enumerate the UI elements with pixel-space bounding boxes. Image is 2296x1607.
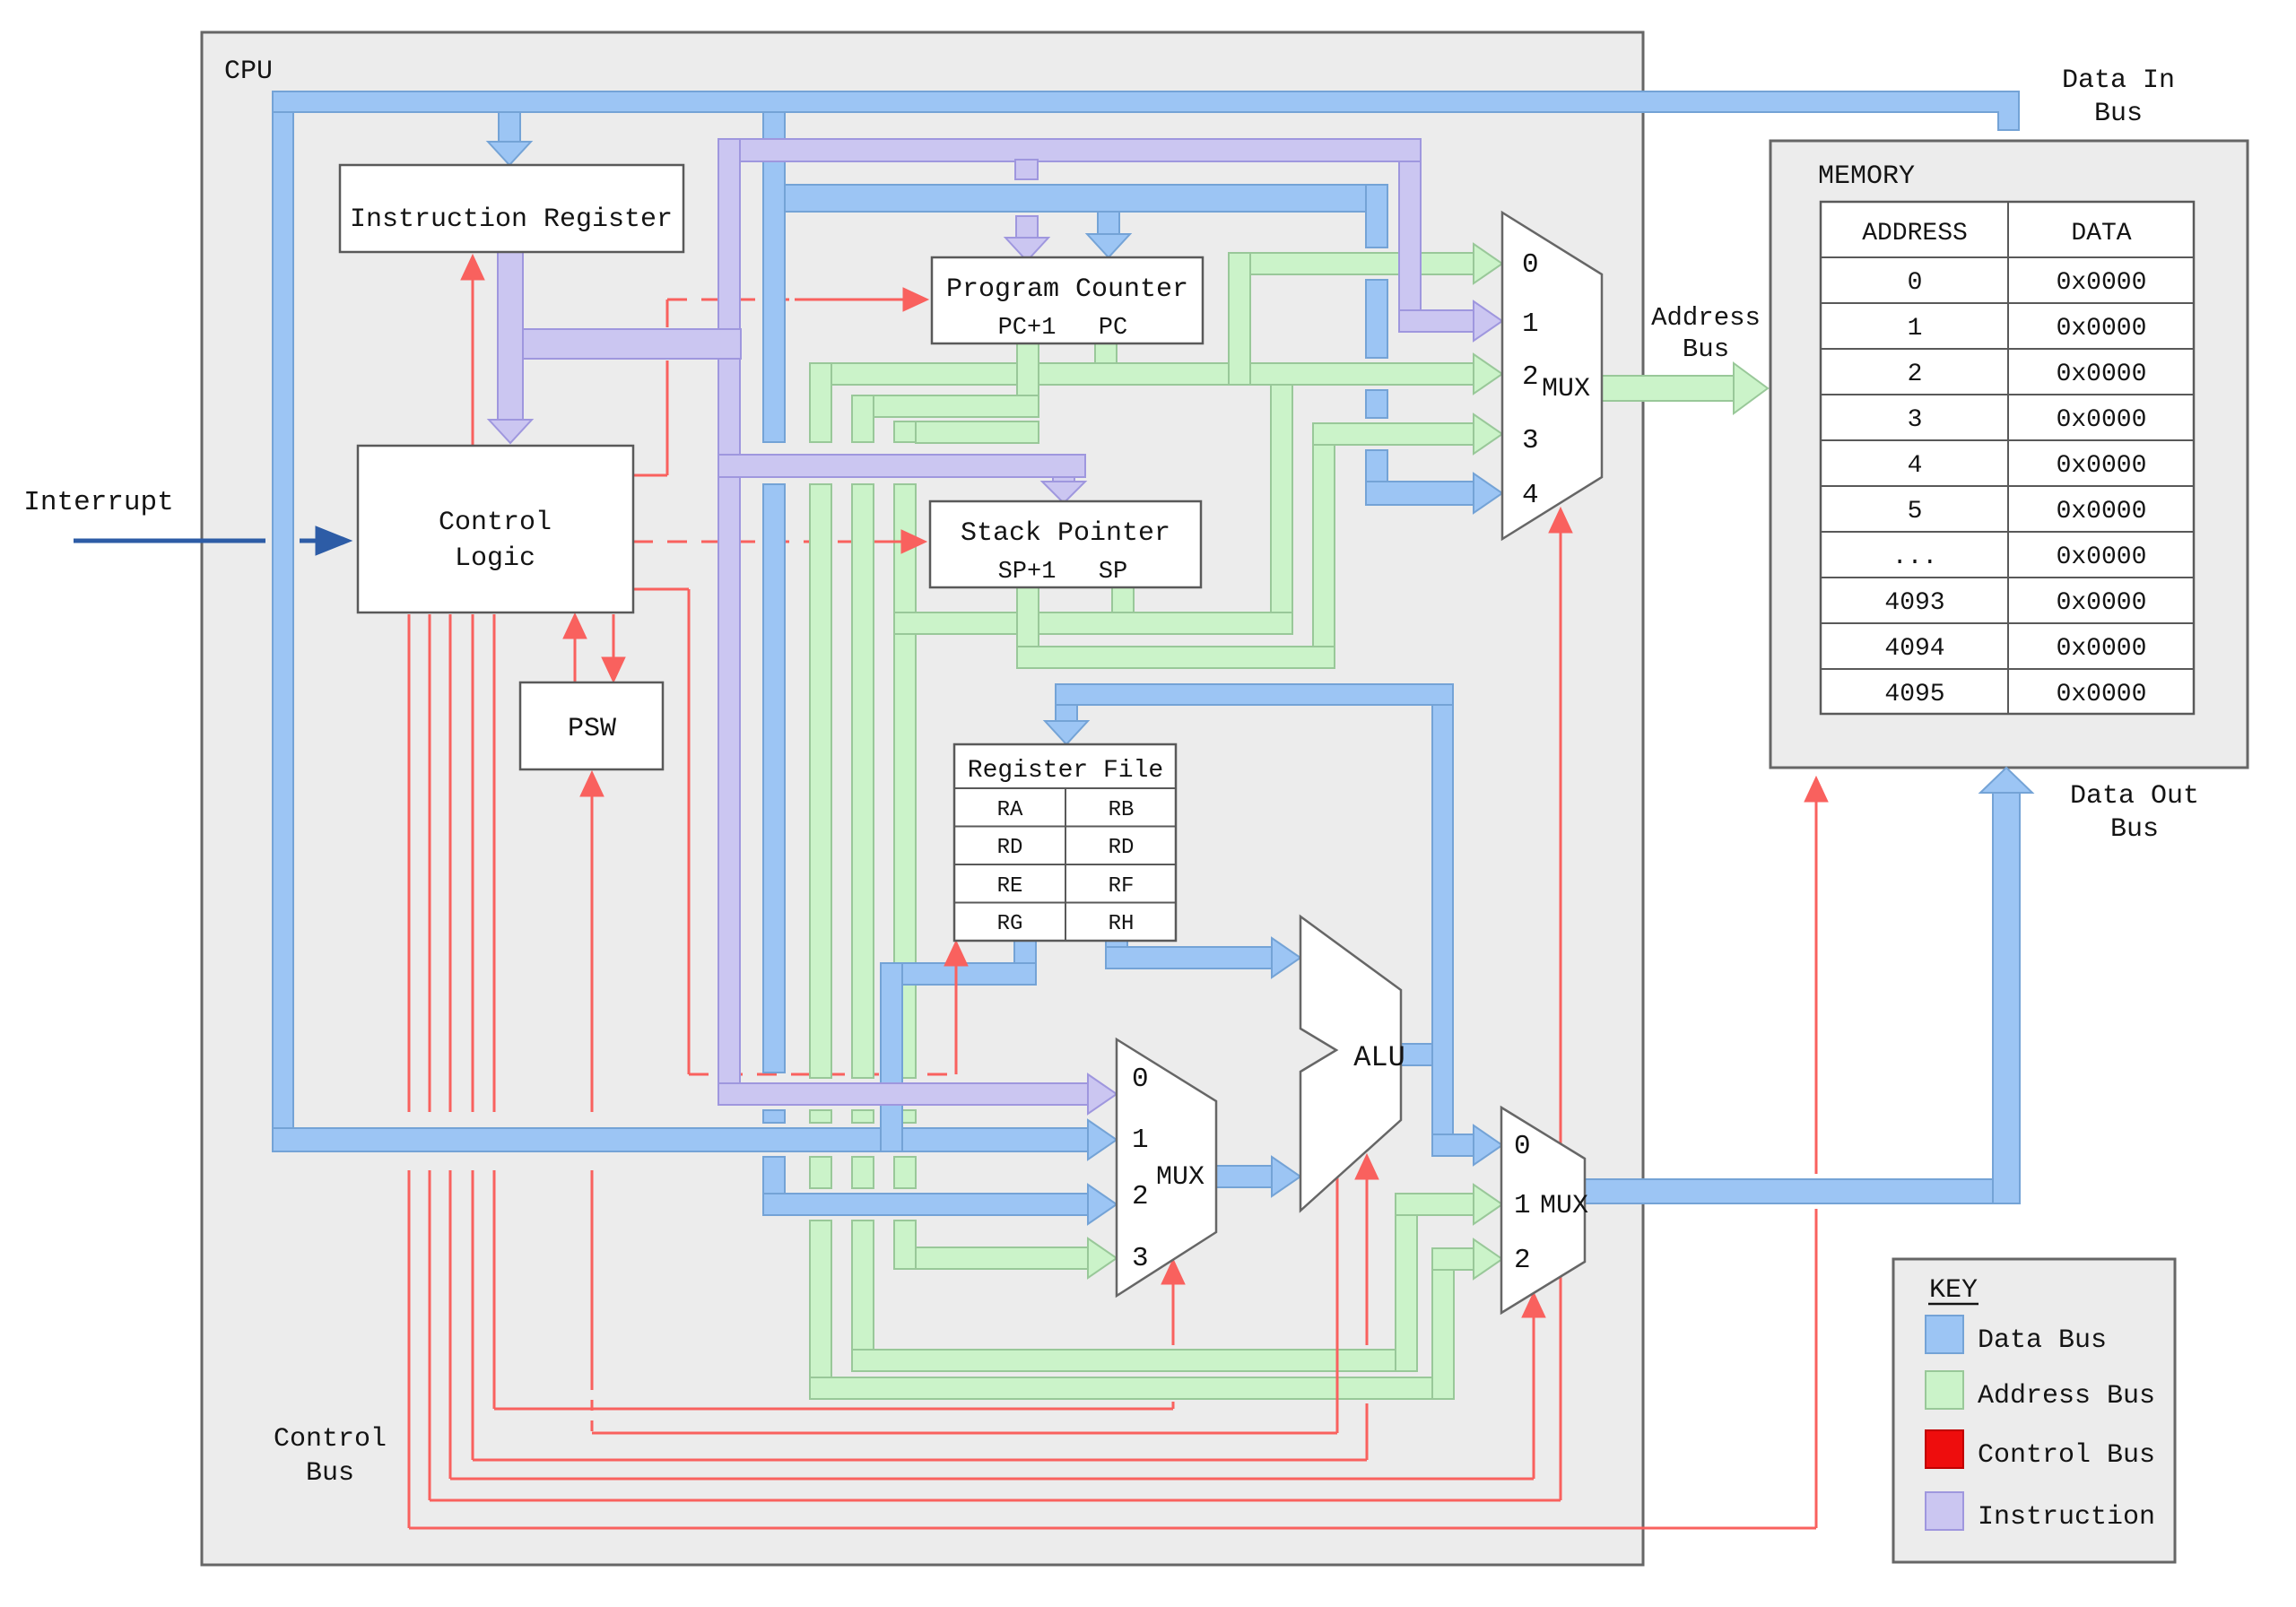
wire red memory control riser upper bbox=[1815, 800, 1818, 1174]
svg-text:RG: RG bbox=[997, 912, 1023, 936]
arrowhead red into MUX1 select bbox=[1549, 508, 1572, 533]
key underline bbox=[1928, 1303, 1979, 1306]
arrowhead blue into MUX2 input 2 bbox=[1088, 1185, 1117, 1224]
wire blue vertical V2blue lower a bbox=[763, 484, 785, 1073]
wire red dashed to Register File bbox=[689, 1073, 956, 1076]
arrowhead purple into MUX2 input 0 bbox=[1088, 1074, 1117, 1114]
wire green riser to MUX3 input 2 bbox=[1432, 1248, 1454, 1399]
wire green stem MUX3 input 1 bbox=[1396, 1194, 1474, 1215]
wire red Register File control drop bbox=[688, 589, 691, 1074]
svg-text:ALU: ALU bbox=[1353, 1041, 1405, 1074]
svg-text:MUX: MUX bbox=[1542, 374, 1590, 404]
svg-text:3: 3 bbox=[1522, 425, 1539, 456]
arrowhead red into Stack Pointer bbox=[901, 530, 926, 553]
arrowhead purple into Control Logic bbox=[489, 420, 532, 443]
wire green column V2 lower c bbox=[852, 1157, 874, 1188]
wire red MUX3 select riser bbox=[1533, 1316, 1535, 1479]
key swatch Control Bus bbox=[1926, 1430, 1963, 1468]
wire red fan line 2 vertical upper bbox=[472, 614, 474, 1112]
wire red Control Logic to Instruction Register bbox=[472, 278, 474, 446]
wire red fan line 2 vertical lower bbox=[472, 1170, 474, 1460]
svg-text:PC: PC bbox=[1099, 315, 1127, 342]
wire purple band B bbox=[718, 455, 1085, 477]
arrowhead green into MUX1 input 0 bbox=[1474, 244, 1502, 283]
box Instruction Register bbox=[340, 165, 683, 252]
svg-text:4095: 4095 bbox=[1884, 681, 1944, 708]
key swatch Address Bus bbox=[1926, 1371, 1963, 1409]
svg-text:Data Bus: Data Bus bbox=[1978, 1325, 2107, 1356]
svg-text:Control: Control bbox=[274, 1424, 387, 1455]
wire blue right vertical segment a bbox=[1366, 185, 1387, 248]
wire red dashed to Program Counter bbox=[667, 299, 795, 301]
wire red flags riser to PSW dashed bbox=[591, 1388, 594, 1431]
arrowhead blue into MUX3 input 0 bbox=[1474, 1125, 1502, 1165]
wire red fan line 5 horizontal bbox=[409, 1527, 1816, 1530]
wire red fan line 4 horizontal bbox=[430, 1499, 1561, 1502]
svg-text:1: 1 bbox=[1514, 1190, 1531, 1221]
wire green riser SP band to MUX1 input 2 bbox=[1271, 385, 1292, 612]
svg-text:0: 0 bbox=[1522, 249, 1539, 281]
wire blue port A elbow horizontal bbox=[881, 963, 1036, 985]
wire green SP output stub bbox=[1112, 587, 1134, 634]
svg-text:0x0000: 0x0000 bbox=[2057, 681, 2147, 708]
wire green column V2 lower b bbox=[852, 1110, 874, 1123]
wire red ALU select riser lower bbox=[1366, 1403, 1369, 1460]
wire green riser to MUX3 input 1 bbox=[1396, 1194, 1417, 1371]
wire purple stub into Stack Pointer bbox=[1053, 457, 1074, 482]
wire green bottom band to MUX3 input 1 bbox=[852, 1350, 1417, 1371]
svg-text:Logic: Logic bbox=[455, 543, 535, 574]
wire purple stem MUX1 input 1 bbox=[1399, 310, 1474, 332]
wire blue vertical V2blue upper bbox=[763, 112, 785, 442]
arrowhead red into MUX3 select bbox=[1522, 1292, 1545, 1317]
MEMORY container box bbox=[1770, 141, 2248, 768]
wire green SP+1 output stub bbox=[1017, 587, 1039, 668]
wire green stem MUX1 input 0 bbox=[1250, 253, 1474, 274]
wire purple stub Instruction Register to Control Logic bbox=[498, 252, 523, 420]
svg-text:0x0000: 0x0000 bbox=[2057, 543, 2147, 571]
wire red fan line 5 vertical lower bbox=[408, 1170, 411, 1528]
wire green column V3 lower d bbox=[894, 1220, 916, 1269]
svg-text:Bus: Bus bbox=[1683, 334, 1729, 364]
arrowhead red into Register File bottom bbox=[944, 941, 968, 966]
svg-text:4: 4 bbox=[1908, 452, 1923, 480]
wire red fan line 4 vertical lower bbox=[429, 1170, 431, 1500]
svg-text:Instruction Register: Instruction Register bbox=[350, 204, 673, 235]
svg-text:0x0000: 0x0000 bbox=[2057, 315, 2147, 343]
memory table grid bbox=[1821, 202, 2194, 714]
wire interrupt line part a bbox=[74, 539, 265, 543]
wire purple right vertical bbox=[1399, 161, 1421, 332]
arrowhead blue into MUX2 input 1 bbox=[1088, 1120, 1117, 1160]
svg-text:5: 5 bbox=[1908, 498, 1923, 526]
wire purple long vertical bbox=[718, 139, 740, 1105]
svg-text:RE: RE bbox=[997, 874, 1023, 899]
wire red memory control riser lower bbox=[1815, 1209, 1818, 1528]
svg-text:4: 4 bbox=[1522, 480, 1539, 511]
wire green column V3 upper bbox=[894, 421, 916, 442]
svg-text:0: 0 bbox=[1132, 1064, 1149, 1095]
wire green column V1 lower c bbox=[810, 1157, 831, 1188]
wire green third elbow band bbox=[916, 421, 1039, 443]
wire green stem MUX1 input 3 bbox=[1313, 423, 1474, 445]
svg-text:RB: RB bbox=[1109, 798, 1135, 822]
arrowhead red into ALU select bbox=[1355, 1154, 1378, 1179]
wire blue stem Register File to ALU bbox=[1106, 947, 1274, 969]
wire purple top horizontal bbox=[718, 139, 1421, 161]
svg-text:3: 3 bbox=[1908, 406, 1923, 434]
wire red MUX1 select riser bbox=[1560, 531, 1562, 1500]
wire blue stem MUX3 input 0 bbox=[1432, 1134, 1474, 1156]
key swatch Data Bus bbox=[1926, 1316, 1963, 1353]
wire red fan line 1 vertical upper bbox=[493, 614, 496, 1112]
svg-text:Stack Pointer: Stack Pointer bbox=[961, 518, 1170, 549]
svg-text:KEY: KEY bbox=[1929, 1275, 1978, 1306]
wire purple stem of arrow into Program Counter bbox=[1016, 216, 1038, 239]
wire blue stem of arrow into Register File bbox=[1056, 705, 1077, 721]
svg-text:RF: RF bbox=[1109, 874, 1135, 899]
wire blue left vertical bbox=[273, 112, 293, 1151]
svg-text:0: 0 bbox=[1514, 1131, 1531, 1162]
wire green bottom band to MUX3 input 2 bbox=[810, 1377, 1454, 1399]
arrowhead green into MUX3 input 2 bbox=[1474, 1239, 1502, 1279]
box Program Counter bbox=[932, 257, 1203, 343]
wire purple band A from Instruction Register bbox=[498, 329, 741, 359]
wire red dashed to Stack Pointer bbox=[633, 541, 874, 543]
wire red flags riser to PSW lower part bbox=[591, 1170, 594, 1388]
svg-text:4093: 4093 bbox=[1884, 589, 1944, 617]
box Register File bbox=[954, 744, 1176, 941]
svg-text:Bus: Bus bbox=[2094, 99, 2143, 129]
svg-text:Data In: Data In bbox=[2062, 65, 2175, 96]
arrowhead blue into ALU upper input bbox=[1272, 938, 1300, 977]
wire green PC output stub bbox=[1095, 343, 1117, 385]
wire green PC+1 band bbox=[852, 395, 1039, 417]
wire blue stem of arrow into Program Counter bbox=[1098, 212, 1119, 236]
svg-text:RD: RD bbox=[997, 836, 1023, 860]
arrowhead red into Control Logic bottom bbox=[563, 613, 587, 638]
arrowhead blue into Register File bbox=[1045, 721, 1088, 744]
arrowhead green Address Bus into MEMORY bbox=[1734, 363, 1768, 413]
wire red solid to Program Counter bbox=[795, 299, 904, 301]
memory table outline bbox=[1821, 202, 2194, 714]
arrowhead red into PSW bottom bbox=[580, 771, 604, 796]
wire blue vertical to MUX3 input 0 bbox=[1432, 705, 1453, 1156]
svg-text:Control Bus: Control Bus bbox=[1978, 1440, 2155, 1471]
wire blue Register File port A stub bbox=[1014, 919, 1036, 985]
wire purple elbow to MUX2 input 0 bbox=[718, 1083, 1088, 1105]
wire interrupt line part b bbox=[300, 539, 316, 543]
svg-text:Bus: Bus bbox=[306, 1458, 354, 1489]
wire red fan line 4 vertical upper bbox=[429, 614, 431, 1112]
mux MUX1 trapezoid bbox=[1502, 213, 1602, 539]
svg-text:Program Counter: Program Counter bbox=[946, 274, 1188, 305]
wire red Control Logic to Program Counter riser lower bbox=[666, 360, 669, 475]
wire red fan line 3 horizontal bbox=[450, 1478, 1534, 1481]
wire blue right vertical segment d bbox=[1366, 450, 1387, 505]
svg-text:1: 1 bbox=[1908, 315, 1923, 343]
register file grid bbox=[954, 788, 1176, 941]
svg-text:MEMORY: MEMORY bbox=[1818, 161, 1915, 192]
wire green PC+1 output stub bbox=[1017, 343, 1039, 417]
arrowhead red into Instruction Register bbox=[461, 255, 484, 280]
svg-text:3: 3 bbox=[1132, 1243, 1149, 1274]
svg-text:PSW: PSW bbox=[568, 714, 616, 744]
wire green column V3 lower b bbox=[894, 1110, 916, 1123]
wire green stem MUX2 input 3 bbox=[916, 1247, 1088, 1269]
svg-text:0x0000: 0x0000 bbox=[2057, 589, 2147, 617]
wire blue top Data-In horizontal bbox=[273, 91, 2019, 130]
arrowhead blue into ALU lower input bbox=[1272, 1157, 1300, 1196]
wire blue MUX3 output horizontal bbox=[1585, 1179, 1993, 1203]
arrowhead green into MUX2 input 3 bbox=[1088, 1238, 1117, 1278]
wire green stem MUX3 input 2 bbox=[1432, 1248, 1474, 1270]
svg-text:0x0000: 0x0000 bbox=[2057, 635, 2147, 663]
wire green column V3 lower c bbox=[894, 1157, 916, 1188]
wire red fan line 1 vertical lower bbox=[493, 1170, 496, 1409]
wire green column V2 lower d bbox=[852, 1220, 874, 1371]
box Control Logic bbox=[358, 446, 633, 612]
key swatch Instruction bbox=[1926, 1492, 1963, 1530]
wire red fan line 3 vertical upper bbox=[449, 614, 452, 1112]
arrowhead red into MUX2 select bbox=[1161, 1259, 1185, 1284]
wire blue vertical V2blue lower b bbox=[763, 1110, 785, 1123]
svg-text:2: 2 bbox=[1908, 360, 1923, 388]
svg-text:0x0000: 0x0000 bbox=[2057, 360, 2147, 388]
wire red Control Logic to Program Counter riser upper bbox=[666, 300, 669, 327]
svg-text:PC+1: PC+1 bbox=[998, 315, 1057, 342]
wire red Control Logic to PSW bbox=[613, 614, 615, 659]
svg-text:SP+1: SP+1 bbox=[998, 559, 1057, 586]
wire blue stem MUX1 input 4 bbox=[1366, 482, 1474, 505]
wire blue stem of arrow into Instruction Register bbox=[499, 112, 520, 142]
svg-text:0x0000: 0x0000 bbox=[2057, 269, 2147, 297]
arrowhead green into MUX3 input 1 bbox=[1474, 1185, 1502, 1224]
wire red solid to Stack Pointer bbox=[874, 541, 902, 543]
svg-text:MUX: MUX bbox=[1156, 1162, 1205, 1193]
svg-text:Register File: Register File bbox=[968, 757, 1163, 785]
arrowhead green into MUX1 input 3 bbox=[1474, 414, 1502, 454]
arrowhead interrupt bbox=[316, 526, 352, 555]
wire green SP band bbox=[894, 612, 1292, 634]
wire blue horizontal above Register File bbox=[1056, 684, 1453, 705]
wire green column V1 upper bbox=[810, 363, 831, 442]
svg-text:Address Bus: Address Bus bbox=[1978, 1381, 2155, 1412]
wire red MUX2 select riser lower bbox=[1172, 1402, 1175, 1409]
wire blue port A drop to long horizontal bbox=[881, 963, 902, 1151]
svg-text:0: 0 bbox=[1908, 269, 1923, 297]
box Stack Pointer bbox=[930, 501, 1201, 587]
svg-text:RA: RA bbox=[997, 798, 1023, 822]
wire red fan line 2 horizontal bbox=[473, 1459, 1367, 1462]
wire red PSW to Control Logic bbox=[574, 637, 577, 682]
arrowhead blue into Program Counter bbox=[1087, 234, 1130, 257]
arrowhead purple into Stack Pointer bbox=[1042, 482, 1085, 503]
box PSW bbox=[520, 682, 663, 769]
svg-text:MUX: MUX bbox=[1540, 1191, 1588, 1221]
svg-text:DATA: DATA bbox=[2071, 220, 2131, 248]
arrowhead purple into MUX1 input 1 bbox=[1474, 301, 1502, 341]
arrowhead blue into MUX1 input 4 bbox=[1474, 473, 1502, 513]
wire green riser to MUX1 input 0 bbox=[1229, 253, 1250, 385]
arrowhead red into PSW top bbox=[602, 657, 625, 682]
wire red riser into Register File bbox=[955, 964, 958, 1074]
wire red fan line 5 vertical upper bbox=[408, 614, 411, 1112]
svg-text:Address: Address bbox=[1651, 303, 1761, 333]
svg-text:Control: Control bbox=[439, 508, 552, 538]
svg-text:2: 2 bbox=[1514, 1245, 1531, 1276]
wire red ALU select riser upper bbox=[1366, 1177, 1369, 1345]
wire green PC band to MUX1 input 2 bbox=[810, 363, 1474, 385]
CPU container box bbox=[202, 32, 1643, 1565]
wire green column V2 lower a bbox=[852, 484, 874, 1078]
wire blue elbow to MUX2 input 2 bbox=[763, 1194, 1088, 1215]
svg-text:2: 2 bbox=[1522, 361, 1539, 393]
svg-text:0x0000: 0x0000 bbox=[2057, 498, 2147, 526]
wire red Control Logic to Register File exit bbox=[633, 588, 689, 591]
svg-text:0x0000: 0x0000 bbox=[2057, 452, 2147, 480]
wire blue Register File port B stub bbox=[1106, 919, 1127, 969]
svg-text:RD: RD bbox=[1109, 836, 1135, 860]
wire green column V3 lower a bbox=[894, 484, 916, 1078]
svg-text:2: 2 bbox=[1132, 1181, 1149, 1212]
svg-text:SP: SP bbox=[1099, 559, 1127, 586]
mux MUX3 trapezoid bbox=[1501, 1108, 1585, 1313]
svg-text:4094: 4094 bbox=[1884, 635, 1944, 663]
svg-text:...: ... bbox=[1892, 543, 1937, 571]
wire blue second horizontal bbox=[763, 185, 1387, 212]
wire blue stem MUX2 to ALU bbox=[1216, 1166, 1274, 1187]
wire red fan line 3 vertical lower bbox=[449, 1170, 452, 1479]
svg-text:Instruction: Instruction bbox=[1978, 1502, 2155, 1533]
arrowhead blue Data Out into MEMORY bbox=[1980, 768, 2032, 793]
wire green column V1 lower d bbox=[810, 1220, 831, 1399]
svg-text:Data Out: Data Out bbox=[2070, 781, 2199, 812]
wire red ALU flags horizontal bbox=[592, 1432, 1337, 1435]
wire green SP+1 band bbox=[1017, 647, 1335, 668]
wire green column V2 upper bbox=[852, 395, 874, 442]
svg-text:RH: RH bbox=[1109, 912, 1135, 936]
wire green riser to MUX1 input 3 bbox=[1313, 445, 1335, 647]
wire green column V1 lower a bbox=[810, 484, 831, 1078]
wire blue ALU output stub bbox=[1401, 1044, 1432, 1065]
KEY container box bbox=[1893, 1259, 2175, 1562]
arrowhead red into Program Counter bbox=[903, 288, 928, 311]
wire blue Data Out vertical bbox=[1993, 793, 2020, 1203]
svg-text:1: 1 bbox=[1132, 1125, 1149, 1156]
wire red fan line 1 horizontal bbox=[494, 1408, 1173, 1411]
wire green Address Bus output stem bbox=[1602, 376, 1735, 401]
wire red flags riser to PSW upper part bbox=[591, 795, 594, 1112]
wire green column V1 lower b bbox=[810, 1110, 831, 1123]
wire purple stub below top horizontal to Program Counter bbox=[1015, 160, 1038, 179]
wire red Control Logic to Program Counter exit bbox=[633, 474, 667, 477]
wire blue right vertical segment c bbox=[1366, 390, 1387, 418]
wire blue vertical V2blue lower c bbox=[763, 1157, 785, 1194]
mux MUX2 trapezoid bbox=[1117, 1039, 1216, 1296]
wire red MUX2 select riser upper bbox=[1172, 1282, 1175, 1345]
wire blue long horizontal to MUX2 input 1 bbox=[273, 1128, 1088, 1151]
svg-text:CPU: CPU bbox=[224, 56, 273, 87]
wire blue right vertical segment b bbox=[1366, 280, 1387, 358]
arrowhead green into MUX1 input 2 bbox=[1474, 354, 1502, 394]
arrowhead blue into Instruction Register bbox=[488, 142, 531, 165]
svg-text:0x0000: 0x0000 bbox=[2057, 406, 2147, 434]
svg-text:1: 1 bbox=[1522, 308, 1539, 340]
wire red ALU flags vertical bbox=[1336, 1177, 1339, 1433]
alu ALU shape bbox=[1300, 916, 1401, 1211]
arrowhead red into MEMORY bottom bbox=[1805, 777, 1828, 802]
arrowhead purple into Program Counter bbox=[1005, 238, 1048, 261]
svg-text:Interrupt: Interrupt bbox=[23, 487, 173, 518]
svg-text:Bus: Bus bbox=[2110, 814, 2159, 845]
svg-text:ADDRESS: ADDRESS bbox=[1862, 220, 1968, 248]
